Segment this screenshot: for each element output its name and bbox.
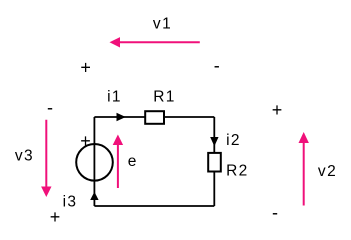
svg-text:-: - <box>272 203 278 223</box>
svg-text:e: e <box>128 153 137 170</box>
svg-text:v3: v3 <box>15 148 34 165</box>
voltage source U1 circle <box>76 144 113 181</box>
current arrow i2 <box>210 137 218 146</box>
annotation arrow e <box>113 135 123 189</box>
svg-text:+: + <box>50 207 61 227</box>
svg-text:i3: i3 <box>63 194 78 211</box>
svg-text:R2: R2 <box>226 162 249 179</box>
resistor R1 <box>145 111 164 124</box>
current arrow i1 <box>117 113 126 121</box>
resistor R2 <box>208 153 221 172</box>
svg-text:-: - <box>47 98 53 118</box>
svg-text:i2: i2 <box>226 132 241 149</box>
wire bottom <box>94 205 214 207</box>
svg-text:R1: R1 <box>153 88 176 105</box>
wire right <box>213 117 215 206</box>
annotation arrow v3 <box>41 120 51 197</box>
svg-text:+: + <box>80 57 91 77</box>
annotation arrow v2 <box>299 132 309 206</box>
svg-text:v2: v2 <box>318 163 337 180</box>
svg-text:+: + <box>272 100 283 120</box>
svg-text:v1: v1 <box>153 15 172 32</box>
wire top <box>94 116 214 118</box>
current arrow i3 <box>90 192 98 200</box>
wire left <box>93 117 95 206</box>
svg-text:-: - <box>214 56 220 76</box>
svg-text:i1: i1 <box>107 88 122 105</box>
annotation arrow v1 <box>110 37 200 47</box>
svg-text:+: + <box>80 131 91 151</box>
